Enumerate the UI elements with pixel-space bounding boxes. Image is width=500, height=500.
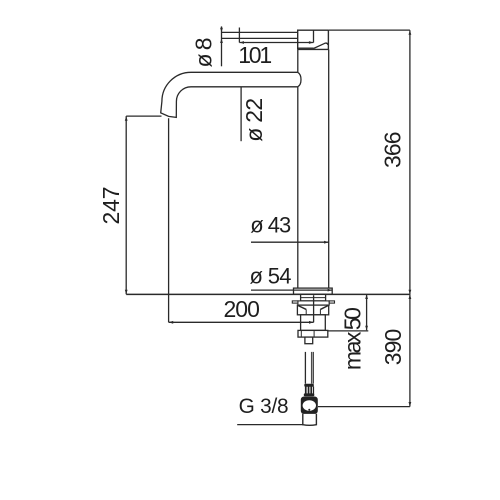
svg-text:247: 247 <box>98 187 124 225</box>
svg-text:200: 200 <box>223 296 260 322</box>
svg-text:G 3/8: G 3/8 <box>239 395 289 418</box>
svg-text:366: 366 <box>380 131 406 168</box>
svg-text:ø 8: ø 8 <box>191 37 217 67</box>
svg-text:390: 390 <box>380 329 406 366</box>
svg-text:ø 54: ø 54 <box>250 264 292 289</box>
svg-text:max 50: max 50 <box>340 307 366 370</box>
svg-text:101: 101 <box>238 42 272 68</box>
svg-text:ø 43: ø 43 <box>250 213 291 238</box>
svg-text:ø 22: ø 22 <box>241 98 267 142</box>
